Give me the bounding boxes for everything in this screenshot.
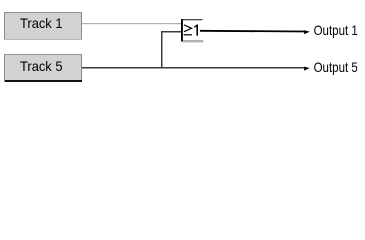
wire Track 1 to OR gate input 1 (82, 23, 182, 24)
wire branch riser to OR gate input 2 (161, 31, 182, 68)
OR gate U1 (&#8805;1) (181, 19, 203, 42)
block Track 1 (4, 12, 82, 40)
svg-text:Output 5: Output 5 (314, 59, 358, 75)
svg-text:Track 1: Track 1 (20, 15, 63, 31)
block Track 5 (4, 54, 82, 82)
arrowhead Output 1 (304, 30, 310, 34)
wire OR gate output to Output 1 (200, 30, 306, 33)
wire Track 5 to Output 5 (82, 67, 306, 69)
arrowhead Output 5 (304, 67, 310, 71)
svg-text:Track 5: Track 5 (20, 58, 63, 74)
svg-text:Output 1: Output 1 (314, 22, 358, 38)
